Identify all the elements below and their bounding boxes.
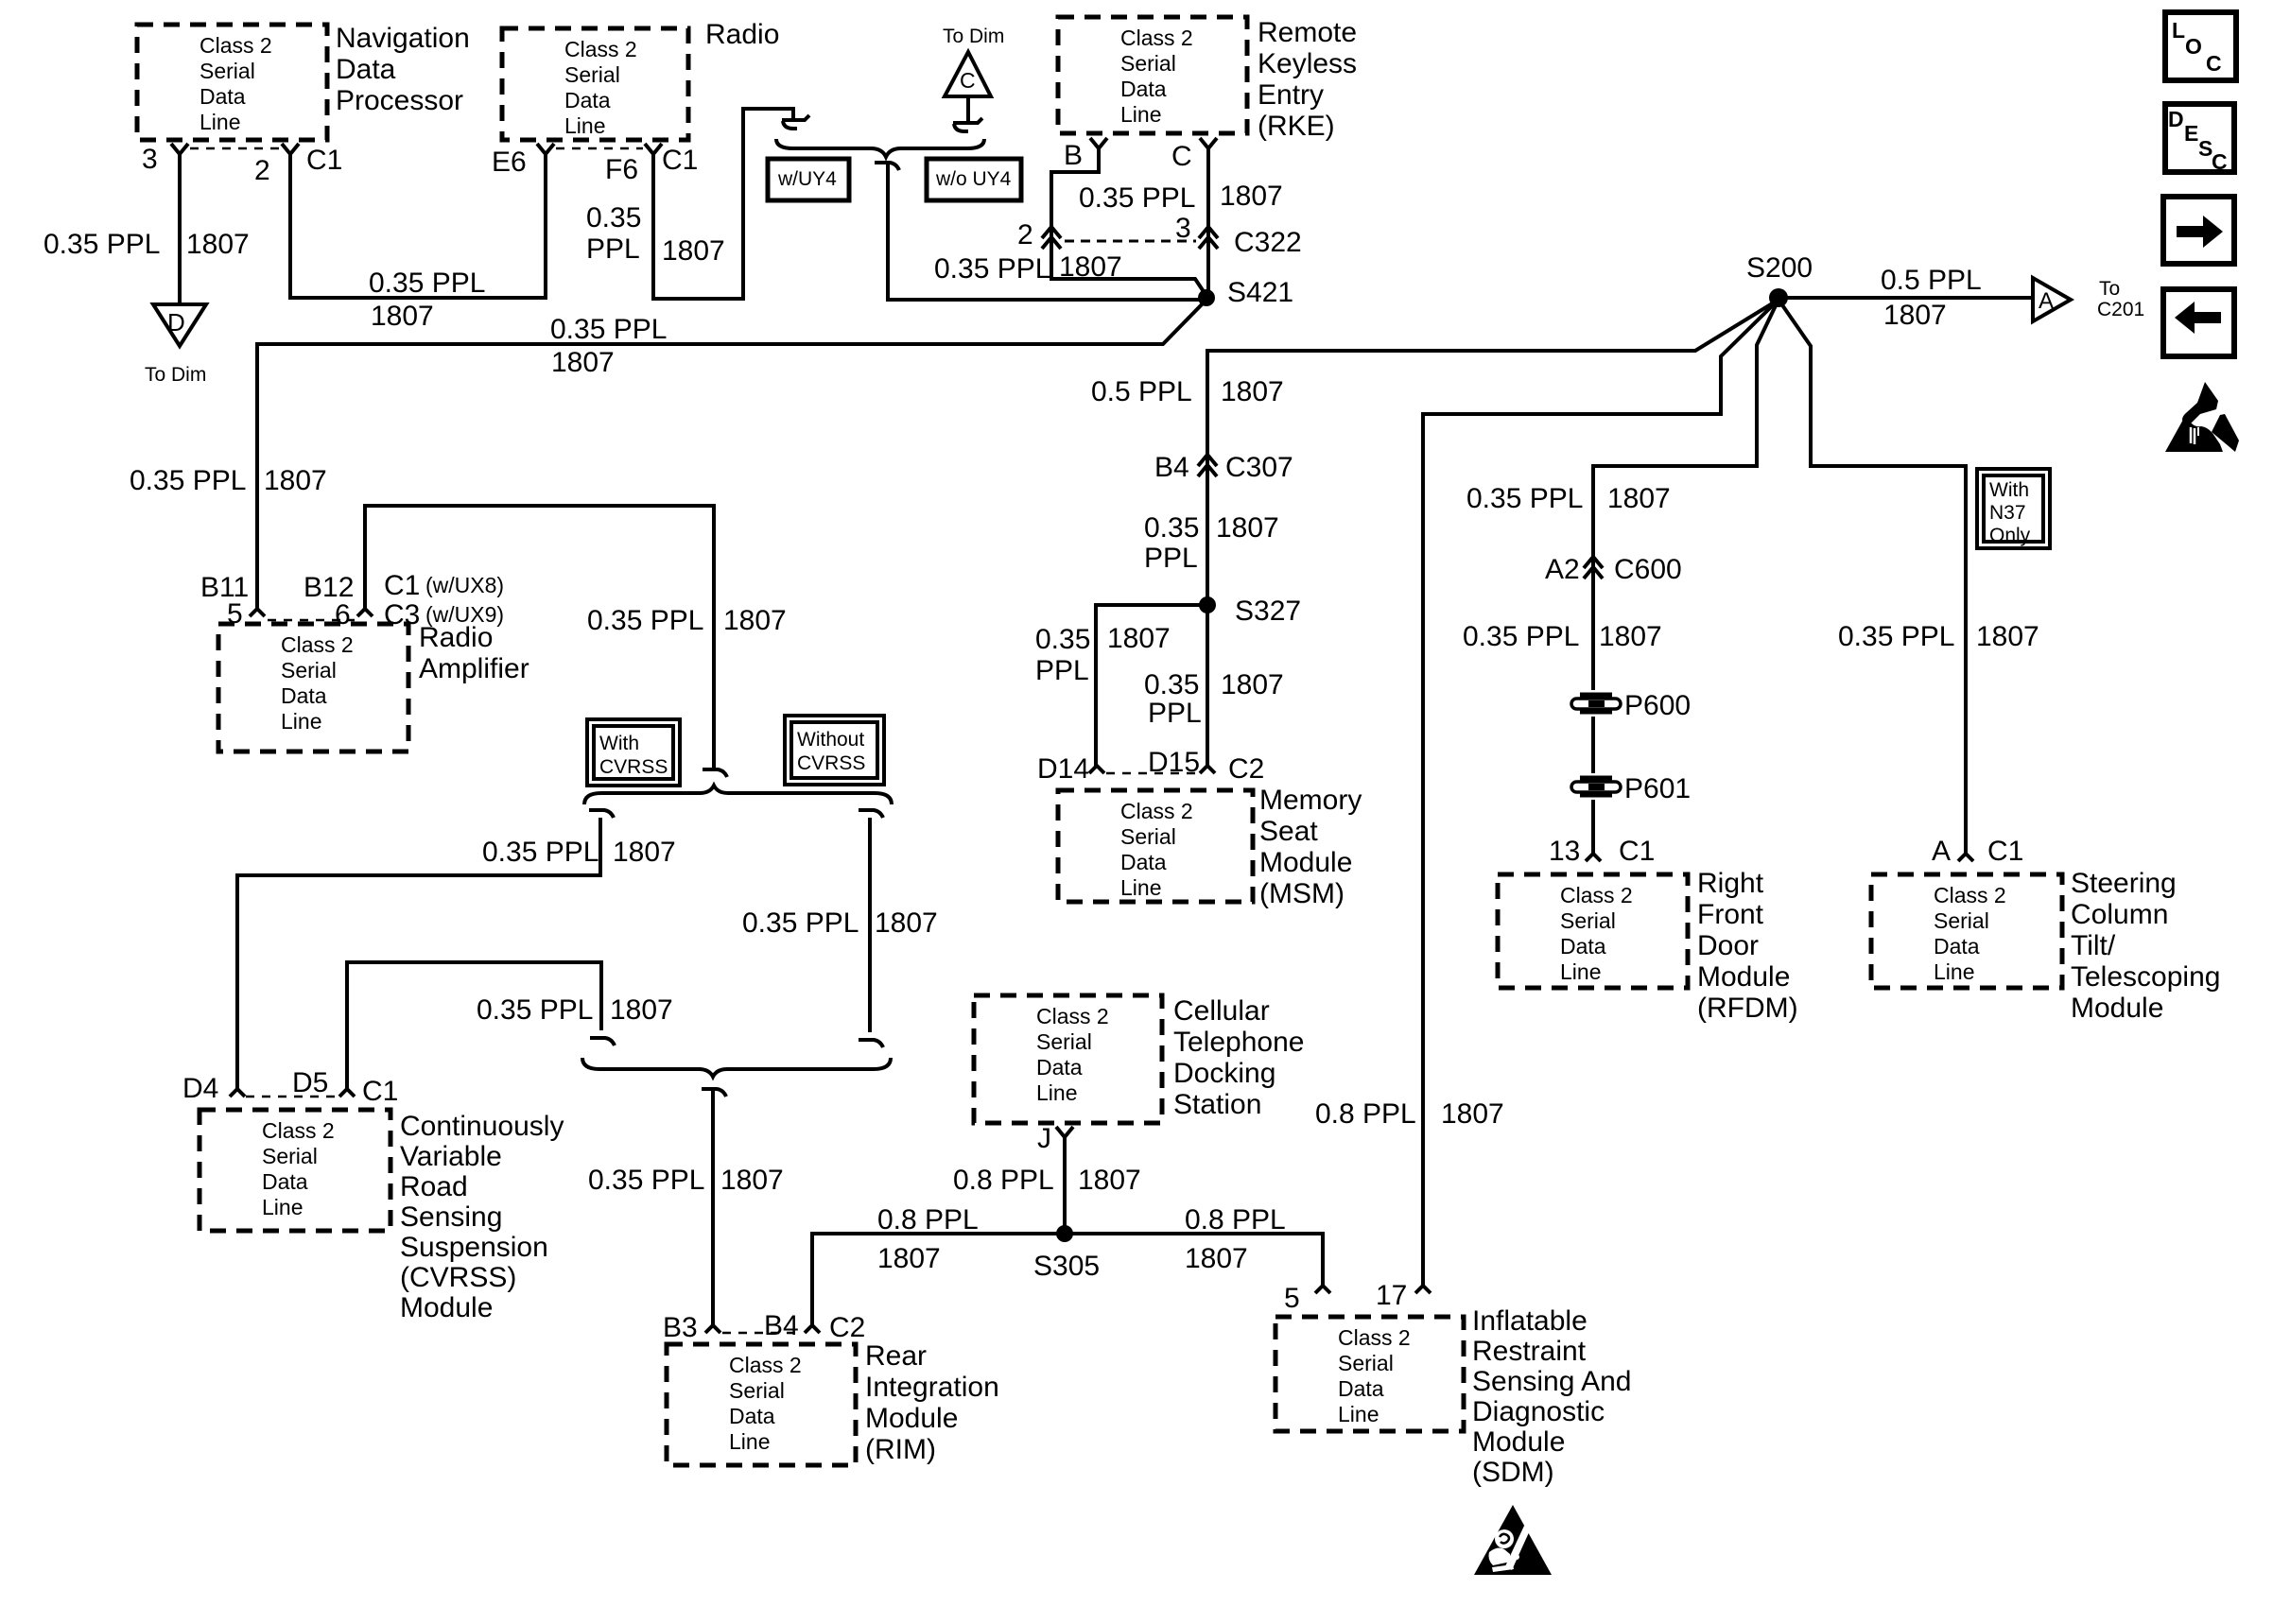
svg-text:J: J bbox=[1037, 1123, 1051, 1154]
wire label 0.35 PPL / 1807 (long wire) bbox=[550, 314, 667, 378]
svg-text:D14: D14 bbox=[1037, 753, 1089, 785]
pin B of RKE bbox=[1090, 138, 1107, 166]
labels C307: B4, C307 bbox=[1154, 452, 1293, 483]
svg-text:Data: Data bbox=[1560, 934, 1606, 959]
svg-text:D5: D5 bbox=[292, 1067, 328, 1098]
svg-text:Data: Data bbox=[281, 683, 327, 708]
splice pack P601 bbox=[1569, 773, 1623, 800]
brace: CVRSS alternatives merge (bottom brace) bbox=[582, 1058, 891, 1077]
svg-text:w/o UY4: w/o UY4 bbox=[935, 168, 1012, 190]
svg-text:C: C bbox=[960, 68, 976, 93]
svg-text:Serial: Serial bbox=[262, 1144, 318, 1168]
wire label 0.35 PPL | 1807 (below C600) bbox=[1463, 621, 1662, 652]
hook: pin6 wire end at brace bbox=[703, 769, 727, 777]
svg-text:1807: 1807 bbox=[1221, 669, 1284, 700]
connector C600 pin A2 bbox=[1584, 557, 1603, 579]
svg-text:S200: S200 bbox=[1746, 252, 1813, 284]
flag: A triangle to C201 bbox=[2033, 278, 2071, 321]
svg-text:2: 2 bbox=[254, 155, 270, 186]
svg-text:Door: Door bbox=[1697, 930, 1759, 961]
svg-text:0.35: 0.35 bbox=[1035, 624, 1090, 655]
pin A of Steering Column Module C1 bbox=[1958, 854, 1973, 861]
svg-text:Class 2: Class 2 bbox=[281, 632, 354, 657]
svg-text:Restraint: Restraint bbox=[1472, 1336, 1587, 1367]
splice pack P600 bbox=[1569, 690, 1623, 717]
option box: w/UY4 bbox=[768, 159, 849, 200]
pin D5 of CVRSS C1 bbox=[339, 1089, 355, 1097]
svg-text:1807: 1807 bbox=[610, 994, 673, 1026]
label: P601 bbox=[1624, 773, 1691, 804]
svg-text:Class 2: Class 2 bbox=[1120, 26, 1193, 50]
svg-text:CVRSS: CVRSS bbox=[599, 756, 668, 778]
wire: S200 to C201 A flag bbox=[1778, 296, 2031, 300]
label: To Dim (above C flag) bbox=[943, 26, 1004, 47]
svg-text:C3: C3 bbox=[384, 599, 420, 631]
svg-text:Module: Module bbox=[400, 1292, 493, 1323]
svg-text:B4: B4 bbox=[764, 1310, 799, 1341]
label: Memory Seat Module (MSM) bbox=[1259, 785, 1362, 909]
pin labels 13, C1 (RFDM) bbox=[1549, 836, 1655, 867]
wire label 0.35 PPL | 1807 (pin5 drop) bbox=[130, 465, 327, 496]
svg-text:C2: C2 bbox=[1228, 753, 1264, 785]
label: Steering Column Tilt/Telescoping Module bbox=[2071, 868, 2220, 1024]
splice S200 bbox=[1769, 288, 1788, 307]
svg-text:Docking: Docking bbox=[1173, 1058, 1275, 1089]
wire label 0.8 PPL / 1807 (S305-SDM) bbox=[1185, 1204, 1286, 1274]
connector face dashed line (CVRSS C1) bbox=[246, 1096, 338, 1098]
svg-text:Line: Line bbox=[281, 709, 321, 734]
svg-text:C201: C201 bbox=[2097, 299, 2144, 320]
hook: bottom brace output bbox=[702, 1089, 726, 1097]
svg-text:PPL: PPL bbox=[1035, 655, 1089, 686]
svg-text:Class 2: Class 2 bbox=[1560, 883, 1633, 907]
svg-text:Without: Without bbox=[797, 729, 864, 751]
hook: bottom end of Without-CVRSS wire bbox=[859, 1040, 883, 1047]
pin D15 of MSM C2 bbox=[1200, 766, 1215, 773]
svg-text:0.35: 0.35 bbox=[1144, 512, 1199, 544]
wire: S200 to RFDM pin 13 (via C600, P600, P601) bbox=[1593, 300, 1778, 854]
wire label 0.35 PPL | 1807 (Steering wire) bbox=[1838, 621, 2039, 652]
legend icon: LOC box bbox=[2165, 12, 2236, 80]
wire label 0.8 PPL | 1807 (J wire) bbox=[953, 1165, 1141, 1196]
svg-text:Entry: Entry bbox=[1258, 79, 1324, 111]
module box: Navigation Data Processor (Class 2 Serial Data Line) bbox=[137, 25, 327, 140]
svg-text:Processor: Processor bbox=[336, 85, 463, 116]
module box: Steering Column Tilt/Telescoping Module (Class 2 Serial Data Line) bbox=[1871, 874, 2062, 988]
svg-text:Serial: Serial bbox=[1120, 824, 1176, 849]
connector C307 pin B4 bbox=[1198, 455, 1217, 476]
svg-text:Amplifier: Amplifier bbox=[419, 653, 529, 684]
svg-text:0.35 PPL: 0.35 PPL bbox=[550, 314, 667, 345]
svg-text:Class 2: Class 2 bbox=[1934, 883, 2006, 907]
svg-text:1807: 1807 bbox=[723, 605, 787, 636]
svg-text:0.35 PPL: 0.35 PPL bbox=[742, 907, 859, 939]
hook: D5 wire end bbox=[590, 1038, 615, 1045]
svg-text:1807: 1807 bbox=[1078, 1165, 1141, 1196]
svg-text:B3: B3 bbox=[663, 1312, 698, 1343]
svg-text:Data: Data bbox=[1036, 1055, 1083, 1080]
label: Right Front Door Module (RFDM) bbox=[1697, 868, 1798, 1024]
svg-text:To Dim: To Dim bbox=[943, 26, 1004, 47]
svg-text:C1: C1 bbox=[1619, 836, 1655, 867]
svg-text:Module: Module bbox=[1259, 847, 1352, 878]
svg-text:C1: C1 bbox=[306, 145, 342, 176]
legend icon: right arrow box bbox=[2163, 197, 2234, 264]
svg-text:C1: C1 bbox=[362, 1076, 398, 1107]
pin 6/B12 of Radio Amplifier C1 bbox=[357, 609, 373, 616]
pin 3 of Navigation Data Processor C1 bbox=[171, 144, 188, 172]
wire: S200 to Steering Column module pin A bbox=[1778, 300, 1966, 854]
svg-text:With: With bbox=[599, 733, 639, 754]
wire: S200 to S327/MSM C2 (via C307) bbox=[1207, 300, 1778, 766]
wire label 0.35 PPL | 1807 (F6 wire) bbox=[586, 202, 725, 267]
connector face dashed line (RIM C2) bbox=[722, 1332, 803, 1335]
legend icon: DESC box bbox=[2165, 104, 2234, 174]
splice S327 bbox=[1199, 596, 1216, 613]
labels C322 connector: 2, 3, C322 bbox=[1017, 213, 1302, 258]
svg-text:(w/UX8): (w/UX8) bbox=[425, 573, 504, 597]
svg-text:B: B bbox=[1064, 140, 1083, 171]
svg-text:To Dim: To Dim bbox=[145, 364, 206, 386]
svg-text:1807: 1807 bbox=[1221, 376, 1284, 407]
module box: CVRSS Module (Class 2 Serial Data Line) bbox=[200, 1110, 390, 1231]
pin D4 of CVRSS C1 bbox=[230, 1089, 245, 1097]
svg-text:Class 2: Class 2 bbox=[1338, 1325, 1411, 1350]
svg-text:Variable: Variable bbox=[400, 1141, 502, 1172]
wire: Radio pin F6 to w/UY4 stub bbox=[653, 109, 793, 299]
svg-text:C1: C1 bbox=[384, 570, 420, 601]
svg-text:Serial: Serial bbox=[564, 62, 620, 87]
hook: brace output (UY4) bbox=[875, 163, 899, 176]
wire label 0.35 PPL | 1807 (RKE C wire) bbox=[1079, 181, 1283, 214]
svg-text:A: A bbox=[2039, 288, 2054, 314]
pin labels B3, B4, C2 (RIM) bbox=[663, 1310, 865, 1343]
svg-text:P601: P601 bbox=[1624, 773, 1691, 804]
svg-text:0.35 PPL: 0.35 PPL bbox=[934, 253, 1050, 285]
svg-text:0.5 PPL: 0.5 PPL bbox=[1881, 265, 1982, 296]
svg-text:1807: 1807 bbox=[1607, 483, 1671, 514]
pin C of RKE bbox=[1200, 138, 1217, 166]
wire label 0.35 PPL | 1807 (pin6 wire) bbox=[587, 605, 787, 636]
svg-text:Class 2: Class 2 bbox=[729, 1353, 802, 1377]
label: CVRSS Module bbox=[400, 1111, 564, 1323]
svg-text:Continuously: Continuously bbox=[400, 1111, 564, 1142]
svg-text:Serial: Serial bbox=[281, 658, 337, 682]
svg-text:0.35 PPL: 0.35 PPL bbox=[130, 465, 246, 496]
svg-text:1807: 1807 bbox=[1441, 1098, 1504, 1130]
wire label 0.35 1807 PPL (C2 wire) bbox=[1144, 669, 1284, 729]
svg-text:Serial: Serial bbox=[1338, 1351, 1394, 1375]
pin labels B11 5 / B12 6 / C1 C3 (Radio Amp) bbox=[200, 570, 504, 631]
pin B3 of RIM C2 bbox=[705, 1325, 720, 1333]
svg-text:With: With bbox=[1989, 479, 2029, 501]
svg-text:Sensing: Sensing bbox=[400, 1201, 502, 1233]
svg-text:(MSM): (MSM) bbox=[1259, 878, 1345, 909]
svg-text:1807: 1807 bbox=[720, 1165, 784, 1196]
pin E6 of Radio C1 bbox=[537, 144, 554, 172]
pin labels E6, F6, C1 (Radio) bbox=[492, 145, 698, 185]
svg-text:Line: Line bbox=[1036, 1080, 1077, 1105]
wire: Cellular pin J to S305 bbox=[1063, 1155, 1067, 1234]
hook: top brace left output bbox=[589, 810, 614, 818]
svg-text:Sensing And: Sensing And bbox=[1472, 1366, 1631, 1397]
svg-text:0.8 PPL: 0.8 PPL bbox=[1315, 1098, 1416, 1130]
option box: Without CVRSS (double border) bbox=[785, 716, 884, 785]
svg-text:1807: 1807 bbox=[1599, 621, 1662, 652]
svg-text:C1: C1 bbox=[1987, 836, 2023, 867]
icon: SRS airbag warning triangle bbox=[1474, 1505, 1552, 1575]
module box: Rear Integration Module (Class 2 Serial Data Line) bbox=[667, 1344, 856, 1465]
module box: Remote Keyless Entry (Class 2 Serial Data Line) bbox=[1058, 17, 1247, 133]
svg-text:S305: S305 bbox=[1033, 1251, 1100, 1282]
connector C322 pin 3 bbox=[1199, 227, 1218, 249]
svg-text:Serial: Serial bbox=[200, 59, 255, 83]
pin 17 of SDM bbox=[1415, 1286, 1431, 1293]
svg-text:Module: Module bbox=[1472, 1426, 1565, 1458]
connector face dashed line (Radio Amp) bbox=[268, 619, 355, 622]
svg-text:Tilt/: Tilt/ bbox=[2071, 930, 2116, 961]
svg-text:Right: Right bbox=[1697, 868, 1764, 899]
pin F6 of Radio C1 bbox=[645, 144, 662, 172]
connector C322 dashed link bbox=[1065, 240, 1196, 243]
svg-text:0.35 PPL: 0.35 PPL bbox=[588, 1165, 704, 1196]
svg-text:Class 2: Class 2 bbox=[1120, 799, 1193, 823]
svg-text:0.8 PPL: 0.8 PPL bbox=[953, 1165, 1054, 1196]
pin 2 of Navigation Data Processor C1 bbox=[282, 144, 299, 172]
svg-text:Line: Line bbox=[564, 113, 605, 138]
svg-text:Data: Data bbox=[1338, 1376, 1384, 1401]
svg-text:0.35 PPL: 0.35 PPL bbox=[482, 837, 599, 868]
wire: NavDP pin 2 to Radio pin E6 bbox=[290, 172, 546, 298]
svg-text:Class 2: Class 2 bbox=[200, 33, 272, 58]
wire label 0.35 PPL | 1807 (above C600) bbox=[1466, 483, 1671, 514]
flag: To Dim triangle D bbox=[153, 304, 206, 346]
svg-text:Data: Data bbox=[1120, 77, 1167, 101]
svg-text:Telescoping: Telescoping bbox=[2071, 961, 2220, 993]
svg-text:Suspension: Suspension bbox=[400, 1232, 548, 1263]
wire: S327 to MSM pin D14 bbox=[1096, 605, 1207, 766]
label: S421 bbox=[1227, 277, 1293, 308]
legend icon: left arrow box bbox=[2163, 289, 2234, 356]
svg-text:Class 2: Class 2 bbox=[564, 37, 637, 61]
pin 5/B11 of Radio Amplifier C1 bbox=[250, 609, 265, 616]
svg-text:Cellular: Cellular bbox=[1173, 995, 1270, 1027]
legend icon: ESD sensitive symbol bbox=[2165, 382, 2239, 452]
wire label 0.35 PPL | 1807 (RKE B wire) bbox=[934, 251, 1122, 285]
svg-text:N37: N37 bbox=[1989, 502, 2026, 524]
svg-text:Line: Line bbox=[1934, 959, 1974, 984]
wire label 0.8 PPL / 1807 (RIM-S305) bbox=[877, 1204, 979, 1274]
svg-text:Data: Data bbox=[564, 88, 611, 112]
option box: w/o UY4 bbox=[927, 159, 1021, 200]
splice S421 bbox=[1198, 289, 1215, 306]
label: S327 bbox=[1235, 596, 1301, 627]
svg-text:1807: 1807 bbox=[1107, 623, 1171, 654]
svg-text:C322: C322 bbox=[1234, 227, 1302, 258]
svg-text:Line: Line bbox=[1120, 102, 1161, 127]
pin D14 of MSM C2 bbox=[1089, 766, 1104, 773]
svg-text:1807: 1807 bbox=[877, 1243, 941, 1274]
flag: To Dim triangle C bbox=[945, 52, 991, 96]
svg-text:0.35 PPL: 0.35 PPL bbox=[1463, 621, 1579, 652]
svg-text:Diagnostic: Diagnostic bbox=[1472, 1396, 1605, 1427]
svg-text:Line: Line bbox=[729, 1429, 770, 1454]
svg-text:Line: Line bbox=[1120, 875, 1161, 900]
svg-text:2: 2 bbox=[1017, 219, 1033, 251]
svg-text:Remote: Remote bbox=[1258, 17, 1357, 48]
svg-text:Front: Front bbox=[1697, 899, 1764, 930]
pin 13 of RFDM C1 bbox=[1586, 854, 1601, 861]
svg-text:Memory: Memory bbox=[1259, 785, 1362, 816]
svg-text:E6: E6 bbox=[492, 147, 527, 178]
svg-text:Serial: Serial bbox=[729, 1378, 785, 1403]
pin 5 of SDM bbox=[1315, 1286, 1330, 1293]
svg-text:Serial: Serial bbox=[1560, 908, 1616, 933]
pin labels B, C (RKE) bbox=[1064, 140, 1192, 172]
svg-text:To: To bbox=[2099, 278, 2120, 300]
module box: Radio Amplifier (Class 2 Serial Data Line) bbox=[218, 624, 408, 752]
svg-text:6: 6 bbox=[335, 599, 351, 631]
svg-text:0.35 PPL: 0.35 PPL bbox=[587, 605, 703, 636]
svg-text:1807: 1807 bbox=[371, 301, 434, 332]
label: P600 bbox=[1624, 690, 1691, 721]
svg-text:C: C bbox=[2212, 149, 2228, 174]
connector face dashed line (MSM C2) bbox=[1106, 772, 1198, 775]
svg-text:1807: 1807 bbox=[551, 347, 615, 378]
svg-text:Seat: Seat bbox=[1259, 816, 1318, 847]
svg-text:Class 2: Class 2 bbox=[262, 1118, 335, 1143]
module box: Radio (Class 2 Serial Data Line) bbox=[502, 28, 688, 140]
svg-text:O: O bbox=[2185, 34, 2202, 59]
wire: S200 to SDM pin 17 bbox=[1423, 300, 1778, 1286]
svg-text:0.35 PPL: 0.35 PPL bbox=[1466, 483, 1583, 514]
svg-text:1807: 1807 bbox=[186, 229, 250, 260]
svg-text:5: 5 bbox=[227, 598, 243, 630]
svg-text:1807: 1807 bbox=[875, 907, 938, 939]
label: Radio Amplifier bbox=[419, 622, 529, 684]
wire label 0.35 PPL | 1807 (Without-CVRSS path) bbox=[742, 907, 938, 939]
pin B4 of RIM C2 bbox=[805, 1325, 820, 1333]
svg-text:Serial: Serial bbox=[1036, 1029, 1092, 1054]
svg-text:1807: 1807 bbox=[264, 465, 327, 496]
svg-text:Data: Data bbox=[262, 1169, 308, 1194]
svg-text:1807: 1807 bbox=[662, 235, 725, 267]
svg-text:Steering: Steering bbox=[2071, 868, 2177, 899]
module box: Right Front Door Module (Class 2 Serial Data Line) bbox=[1498, 874, 1688, 988]
svg-text:Column: Column bbox=[2071, 899, 2168, 930]
pin labels A, C1 (Steering) bbox=[1932, 836, 2023, 867]
wire: To-Dim C flag stub bbox=[966, 96, 970, 124]
svg-text:1807: 1807 bbox=[1883, 300, 1947, 331]
svg-text:S421: S421 bbox=[1227, 277, 1293, 308]
svg-text:F6: F6 bbox=[605, 154, 638, 185]
svg-text:D4: D4 bbox=[182, 1073, 218, 1104]
svg-text:C: C bbox=[2206, 51, 2222, 76]
svg-text:Radio: Radio bbox=[705, 19, 779, 50]
wire label 0.5 PPL | 1807 (C307 wire) bbox=[1091, 376, 1284, 407]
svg-text:C: C bbox=[1171, 141, 1192, 172]
svg-text:Integration: Integration bbox=[865, 1372, 999, 1403]
label: Rear Integration Module (RIM) bbox=[865, 1340, 999, 1465]
hook: top brace right output bbox=[859, 810, 883, 818]
svg-text:Serial: Serial bbox=[1934, 908, 1989, 933]
svg-text:Module: Module bbox=[865, 1403, 958, 1434]
svg-text:(w/UX9): (w/UX9) bbox=[425, 602, 504, 627]
svg-text:PPL: PPL bbox=[1144, 543, 1198, 574]
label: Inflatable Restraint SDM bbox=[1472, 1305, 1631, 1488]
svg-text:Data: Data bbox=[1934, 934, 1980, 959]
svg-text:0.8 PPL: 0.8 PPL bbox=[877, 1204, 979, 1235]
svg-text:A: A bbox=[1932, 836, 1951, 867]
svg-text:D: D bbox=[167, 308, 185, 337]
svg-text:1807: 1807 bbox=[1185, 1243, 1248, 1274]
svg-text:A2: A2 bbox=[1545, 554, 1580, 585]
wire label 0.35 PPL 1807 (D14 wire) bbox=[1035, 623, 1171, 686]
module box: Cellular Telephone Docking Station (Class 2 Serial Data Line) bbox=[974, 995, 1162, 1123]
label: To Dim (under D flag) bbox=[145, 364, 206, 386]
svg-text:Module: Module bbox=[1697, 961, 1790, 993]
wire: S421 to Radio Amplifier pin 5 (long left wire) bbox=[257, 300, 1206, 609]
label: Cellular Telephone Docking Station bbox=[1173, 995, 1304, 1120]
svg-text:Data: Data bbox=[729, 1404, 775, 1428]
svg-text:B4: B4 bbox=[1154, 452, 1189, 483]
svg-text:Station: Station bbox=[1173, 1089, 1261, 1120]
svg-text:Data: Data bbox=[1120, 850, 1167, 874]
svg-text:Data: Data bbox=[200, 84, 246, 109]
svg-text:0.35 PPL: 0.35 PPL bbox=[369, 268, 485, 299]
svg-text:C600: C600 bbox=[1614, 554, 1682, 585]
svg-text:0.35 PPL: 0.35 PPL bbox=[477, 994, 593, 1026]
svg-text:3: 3 bbox=[142, 144, 158, 175]
wire: Radio Amp pin 6 to CVRSS option brace bbox=[365, 506, 714, 768]
svg-text:(CVRSS): (CVRSS) bbox=[400, 1262, 516, 1293]
svg-text:(RKE): (RKE) bbox=[1258, 111, 1335, 142]
svg-text:C307: C307 bbox=[1225, 452, 1293, 483]
svg-text:S327: S327 bbox=[1235, 596, 1301, 627]
labels C600: A2, C600 bbox=[1545, 554, 1682, 585]
svg-text:PPL: PPL bbox=[1148, 698, 1202, 729]
svg-text:Module: Module bbox=[2071, 993, 2163, 1024]
pin labels 3, 2, C1 (NavDP) bbox=[142, 144, 342, 186]
pin J of Cellular Telephone Docking Station bbox=[1056, 1127, 1073, 1155]
svg-text:C1: C1 bbox=[662, 145, 698, 176]
svg-text:13: 13 bbox=[1549, 836, 1580, 867]
hook: w/UY4 stub end bbox=[782, 115, 809, 129]
label: Remote Keyless Entry (RKE) bbox=[1258, 17, 1357, 142]
option box: With CVRSS (double border) bbox=[587, 719, 680, 786]
svg-text:Class 2: Class 2 bbox=[1036, 1004, 1109, 1028]
wire label 0.35 PPL | 1807 (With-CVRSS path) bbox=[482, 837, 676, 868]
svg-text:1807: 1807 bbox=[1220, 181, 1283, 212]
hook: To-Dim C stub end bbox=[953, 118, 982, 131]
svg-text:E: E bbox=[2184, 121, 2198, 146]
svg-text:(RIM): (RIM) bbox=[865, 1434, 936, 1465]
svg-text:Line: Line bbox=[262, 1195, 303, 1219]
svg-text:3: 3 bbox=[1175, 213, 1191, 244]
option box: With N37 Only (double border) bbox=[1977, 469, 2050, 548]
svg-text:17: 17 bbox=[1376, 1280, 1407, 1311]
label: Radio bbox=[705, 19, 779, 50]
label: Navigation Data Processor bbox=[336, 23, 470, 116]
svg-text:Keyless: Keyless bbox=[1258, 48, 1357, 79]
wire: RKE pin B to S421 (via C322 pin 2) bbox=[1051, 166, 1206, 296]
svg-text:1807: 1807 bbox=[1059, 251, 1122, 283]
label: To C201 bbox=[2097, 278, 2144, 320]
pin labels 5, 17 (SDM) bbox=[1284, 1280, 1407, 1314]
svg-text:CVRSS: CVRSS bbox=[797, 752, 865, 774]
wire label 0.35 PPL 1807 (pin 3 wire) bbox=[43, 229, 250, 260]
svg-text:Serial: Serial bbox=[1120, 51, 1176, 76]
